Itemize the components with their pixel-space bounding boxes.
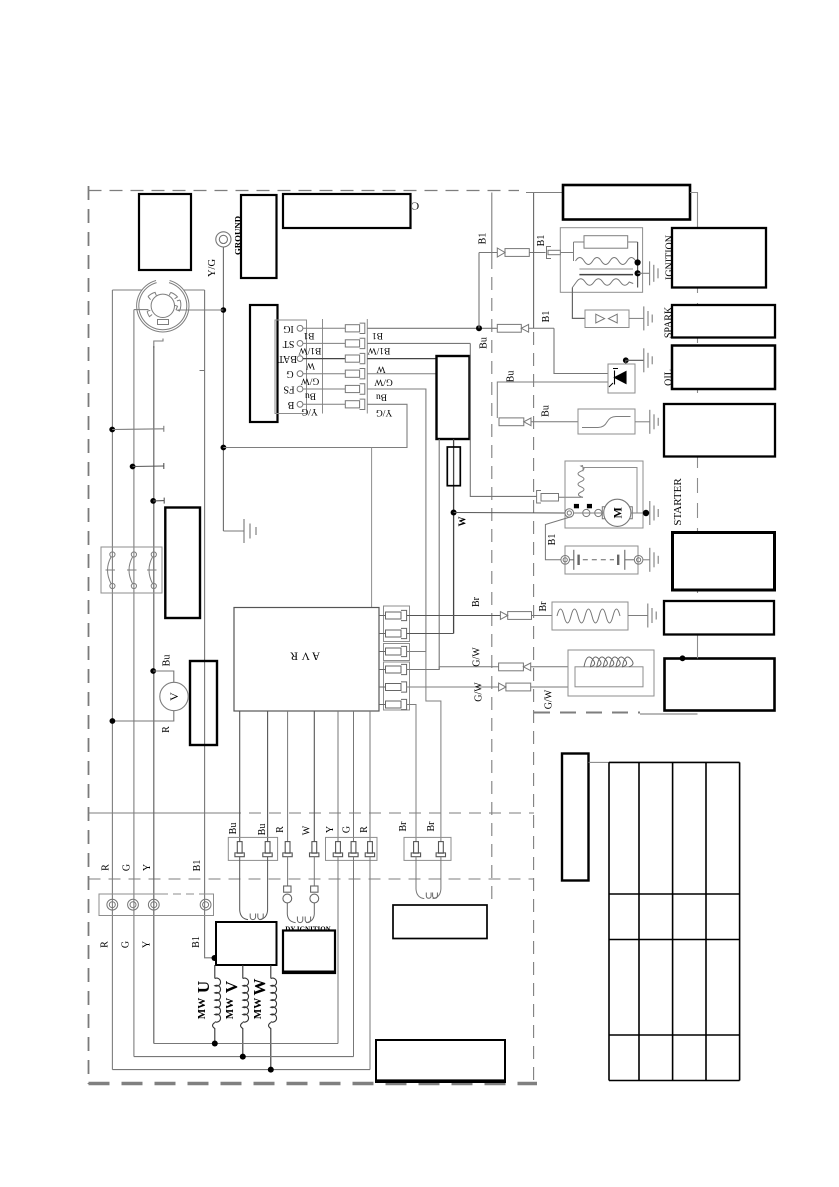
svg-text:R: R: [161, 726, 172, 733]
svg-text:Bu: Bu: [506, 371, 517, 383]
enclosure boundary: gray line y=714 segment: [640, 713, 698, 715]
lighting coil winding: [584, 657, 633, 667]
wire: tap stub from G wire: [133, 463, 164, 469]
battery cells: [570, 550, 635, 570]
voltmeter V: [160, 682, 188, 710]
terminal R: [107, 899, 118, 910]
wire row IG-B1: [303, 327, 345, 329]
box: ignition winding block: [283, 931, 335, 974]
svg-text:G/W: G/W: [374, 377, 393, 387]
wire: spark gap to ground: [629, 317, 644, 319]
pin terminal Y: [333, 842, 342, 857]
wire: bottom pin R vertical: [287, 711, 289, 842]
terminal Y: [148, 899, 159, 910]
svg-text:Br: Br: [398, 821, 409, 832]
connector housing: YGR pins: [326, 837, 378, 860]
svg-text:Y: Y: [142, 864, 153, 871]
ground symbol: ignition coil: [638, 261, 658, 285]
ground symbol: battery: [650, 548, 658, 572]
svg-text:C: C: [412, 200, 419, 212]
wire: pulser to ground: [635, 421, 650, 423]
wire: R pin down to bus: [369, 857, 371, 1070]
svg-text:Y/G: Y/G: [301, 406, 318, 416]
wire: panel Y vertical: [153, 346, 155, 1044]
wire: B0 box right lead down: [690, 193, 698, 229]
node: starter ground dot: [643, 510, 649, 516]
svg-text:V: V: [222, 980, 241, 993]
AVR pin 1: [379, 610, 407, 620]
box: circuit breaker housing: [101, 547, 162, 593]
pin terminal Bu2: [263, 842, 272, 857]
wire to ignition connector: [479, 252, 497, 254]
node: oil unit top dot: [623, 357, 629, 363]
ignition winding loops: [287, 903, 295, 923]
box: thick panel module (left): [165, 508, 200, 619]
svg-text:Y/G: Y/G: [376, 407, 393, 417]
box: engine control unit (black): [437, 356, 470, 439]
svg-text:G/W: G/W: [544, 689, 555, 709]
breaker pole 3: [147, 552, 157, 589]
spark gap box: [585, 310, 629, 328]
wire: receptacle left lead: [134, 309, 149, 311]
AVR side connector outline 3: [384, 662, 410, 710]
ignition coil core lines: [579, 268, 633, 270]
wire: Y pin down to bus: [337, 857, 339, 1044]
svg-text:V: V: [167, 692, 181, 701]
pin FS: [297, 386, 303, 392]
enclosure boundary: control panel left dashed edge: [88, 186, 90, 1084]
wire: starter to battery B1: [545, 517, 571, 560]
fuse F3: [345, 353, 365, 363]
svg-text:Y/G: Y/G: [207, 259, 218, 278]
connector: battery B1 female half: [497, 324, 554, 332]
ignition coil secondary winding: [572, 279, 633, 288]
ground symbol: resistor: [648, 604, 656, 628]
pin BAT: [297, 356, 303, 362]
svg-text:Y: Y: [142, 941, 153, 948]
wire: tap stub from R wire: [112, 426, 164, 432]
wire Y/G row to earth loop: [223, 404, 407, 447]
pin G: [297, 371, 303, 377]
wire: receptacle bottom lead: [154, 339, 163, 349]
starter terminal: [565, 509, 574, 518]
AVR pin 6: [379, 699, 407, 709]
svg-text:B1: B1: [547, 534, 558, 546]
pin terminal G: [349, 842, 358, 857]
node: voltmeter R tap: [110, 718, 116, 724]
terminal strip dashed divider: [160, 893, 200, 895]
svg-text:W: W: [376, 364, 385, 374]
svg-text:MW: MW: [252, 998, 264, 1019]
wire: receptacle right lead to Y/G node: [178, 309, 223, 311]
wire: oil unit dot to ground: [626, 360, 644, 364]
lamp component 1: [283, 886, 292, 903]
pulser coil box: [578, 409, 635, 434]
AVR pin 4: [379, 664, 407, 674]
motor brushes: [602, 507, 632, 519]
wire: tap stub from Y wire: [153, 498, 164, 504]
wire Bu row right then down: [367, 389, 426, 652]
wire W row into control unit: [367, 358, 436, 360]
node: ignition dot 1: [635, 259, 641, 265]
svg-text:Bu: Bu: [257, 824, 268, 836]
connector housing: Bu pins: [228, 837, 277, 860]
pin B: [297, 401, 303, 407]
enclosure boundary: generator top dashed edge y=879: [89, 878, 535, 880]
box: panel meter housing (top-left): [139, 194, 191, 270]
wire G/W from control unit bottom down to AVR pin4: [438, 439, 440, 670]
enclosure boundary: engine vertical dashed line x=697: [697, 228, 699, 643]
enclosure boundary: engine area dashed divider y=712: [534, 712, 640, 714]
pin terminal R2: [365, 842, 374, 857]
wire: B1 feed vertical x=534: [533, 193, 535, 329]
svg-text:Bu: Bu: [479, 337, 490, 349]
wire: Y/G from ground bolt down to junction: [222, 247, 224, 531]
wire: G pin down to bus: [353, 857, 355, 1057]
wire row B-Y/G: [303, 403, 345, 405]
svg-text:R: R: [100, 941, 111, 948]
wire row ST-B1/W: [303, 342, 345, 344]
enclosure boundary: generator bottom heavy dashed edge: [89, 1082, 538, 1085]
wire row BAT-W: [303, 358, 345, 360]
terminal strip box: [99, 894, 214, 916]
wire: B1 junction up to ignition feed: [478, 253, 480, 329]
ground symbol: spark: [644, 306, 652, 330]
wire: receptacle loop top: [112, 289, 142, 291]
wire: panel B1 vertical: [205, 290, 213, 958]
wire: panel R vertical: [111, 290, 113, 1070]
AVR side connector outline 1: [384, 606, 410, 642]
svg-text:FS: FS: [283, 384, 294, 395]
wire: AVR pin6 to Br pin: [407, 705, 416, 842]
starter motor M: [604, 499, 631, 526]
wire: AVR pin4 to G/W connector: [407, 667, 499, 670]
svg-text:B1/W: B1/W: [299, 345, 322, 355]
svg-text:R: R: [275, 826, 286, 833]
connector: starter solenoid receptacle: [537, 491, 583, 504]
svg-text:U: U: [194, 981, 213, 993]
wire: engine boundary stub to lighting label box: [697, 643, 699, 658]
svg-text:G/W: G/W: [472, 647, 483, 667]
svg-text:STARTER: STARTER: [672, 478, 684, 526]
enclosure boundary: vertical dashed line x=534: [533, 332, 535, 1083]
svg-text:G: G: [121, 941, 132, 948]
wire: contacts row: [574, 512, 603, 514]
lamp component 2: [310, 886, 319, 903]
wire: branch from Y/G loop down to AVR top: [371, 448, 373, 608]
svg-text:MW: MW: [224, 998, 236, 1019]
pulser contact curve: [582, 417, 631, 428]
wire: bottom bus Y: [154, 1043, 338, 1045]
spark gap electrodes: [596, 314, 617, 323]
svg-text:ST: ST: [283, 338, 295, 349]
wire: motor to ground: [631, 512, 650, 514]
wire: AVR pin3 to Bu net: [407, 651, 426, 653]
pin terminal Bu1: [235, 842, 244, 857]
wire row FS-Bu: [303, 388, 345, 390]
wire: oil unit lower lead: [497, 382, 608, 418]
wire: tick on B1 loop: [200, 370, 205, 372]
terminal G: [128, 899, 139, 910]
wire: solid segment x=492 top: [491, 193, 493, 257]
receptacle: twist-lock socket face: [137, 281, 189, 333]
wire: bottom pin Bu2 vertical: [267, 711, 269, 842]
starter motor assembly outline: [565, 461, 643, 528]
wire: HT lead to spark gap: [572, 288, 585, 319]
connector: G/W male half: [499, 683, 568, 691]
wire: AVR pin2 to W net: [407, 633, 454, 635]
svg-text:Bu: Bu: [376, 392, 387, 402]
svg-text:W: W: [302, 825, 313, 835]
wire: voltmeter bottom lead: [112, 711, 173, 721]
starter solenoid coil: [578, 465, 584, 497]
connector: G/W female half: [499, 663, 568, 671]
svg-text:Bu: Bu: [162, 655, 173, 667]
svg-text:Br: Br: [538, 601, 549, 612]
wire: battery to ground: [643, 559, 650, 561]
wire: bottom bus R: [112, 1069, 370, 1071]
breaker pole 2: [127, 552, 137, 589]
box: OIL label box: [672, 346, 775, 390]
svg-text:Y: Y: [325, 826, 336, 833]
svg-text:B1: B1: [478, 233, 489, 245]
wire: tall block to table: [589, 761, 610, 763]
svg-text:MW: MW: [196, 998, 208, 1019]
main winding W coil: [269, 965, 277, 1070]
oil sensor thyristor: [609, 369, 626, 388]
node: ignition dot 2: [635, 270, 641, 276]
lighting coil box: [568, 650, 654, 696]
main winding U coil: [213, 965, 221, 1044]
table: legend grid: [609, 762, 740, 1080]
svg-text:G: G: [342, 826, 353, 833]
pin terminal W: [310, 842, 319, 857]
svg-text:G: G: [286, 368, 293, 379]
box: control box with C label: [283, 194, 411, 228]
wire B1 row to junction: [367, 327, 497, 329]
connector: ignition B1 male half: [497, 248, 545, 257]
wire: receptacle loop top right: [184, 289, 205, 291]
node: U coil junction: [212, 1041, 218, 1047]
wire: bottom pin W vertical: [313, 711, 315, 842]
ignition coil primary winding: [576, 258, 636, 265]
node: B1 to stator dot: [212, 955, 218, 961]
wire: bottom bus G: [134, 1056, 354, 1058]
svg-text:B1: B1: [541, 311, 552, 323]
battery box: [565, 546, 638, 574]
svg-text:B1: B1: [191, 936, 202, 948]
box: AVR: [234, 608, 379, 712]
stator sub-winding loops: [250, 914, 263, 920]
AVR pin 2: [379, 628, 407, 638]
svg-text:R: R: [101, 864, 112, 871]
wire: bottom pin G vertical: [353, 711, 355, 842]
svg-text:Bu: Bu: [228, 823, 239, 835]
pin terminal R: [283, 842, 292, 857]
svg-text:BAT: BAT: [278, 353, 297, 364]
fuse F1: [345, 323, 365, 333]
box: charge winding block: [393, 905, 487, 939]
fuse F2: [345, 338, 365, 348]
wire: AVR pin1 to Br connector: [407, 615, 501, 617]
node: V coil junction: [240, 1054, 246, 1060]
AVR pin 5: [379, 682, 407, 692]
ignition coil resistor: [584, 236, 628, 249]
svg-text:B1: B1: [372, 330, 383, 340]
wire B1/W down beside control unit: [470, 343, 537, 496]
svg-text:G: G: [122, 864, 133, 871]
resistor box: [552, 602, 628, 630]
box: IGNITION SWITCH (white label box): [672, 228, 766, 288]
wire B1/W row right: [367, 342, 470, 344]
wire: R pin to ignition lamp 1: [287, 857, 289, 886]
wire: panel G vertical: [133, 310, 135, 1057]
node: W coil junction: [268, 1067, 274, 1073]
pin ST: [297, 341, 303, 347]
node: Y/G loop junction: [221, 445, 227, 451]
wire: ignition coil internal leads: [561, 242, 638, 261]
svg-text:GROUND: GROUND: [233, 216, 243, 255]
charge winding loops: [426, 893, 437, 899]
fuse F4: [345, 369, 365, 379]
wire: B1 to oil unit upper: [554, 328, 608, 373]
ignition coil assembly outline: [560, 228, 642, 293]
svg-text:AVR: AVR: [287, 650, 320, 662]
box: pulser label box: [664, 404, 775, 457]
svg-text:R: R: [359, 826, 370, 833]
connector: ignition B1 female bracket: [547, 247, 561, 259]
svg-text:G/W: G/W: [474, 682, 485, 702]
box: thick panel module (lower): [190, 661, 217, 745]
terminal B1: [200, 899, 211, 910]
wire: bottom pin R2 vertical: [369, 711, 371, 842]
wire: bottom pin Bu1 vertical: [239, 711, 241, 842]
svg-text:IG: IG: [283, 323, 294, 334]
breaker pole 1: [106, 552, 116, 589]
node: lighting box top dot: [680, 655, 686, 661]
node: tap junction on Y wire: [150, 498, 156, 504]
connector housing: Br pins: [404, 837, 451, 860]
node: Y/G junction at receptacle: [221, 307, 227, 313]
lighting coil inner frame: [575, 667, 643, 687]
svg-text:Bu: Bu: [305, 391, 316, 401]
battery right terminal: [634, 556, 643, 565]
wire: AVR pin5 to G/W connector 2: [407, 686, 499, 688]
box: key switch block: [250, 305, 278, 422]
wire row G-G/W: [303, 373, 345, 375]
connector: pulser Bu female half: [499, 418, 578, 426]
pin terminal Br2: [436, 842, 445, 857]
svg-text:B1: B1: [536, 235, 547, 247]
svg-text:B1: B1: [192, 860, 203, 872]
ground symbol: starter: [650, 501, 658, 525]
fuse F5: [345, 384, 365, 394]
box: engine tall label block: [562, 754, 589, 881]
enclosure boundary: control panel top dashed edge: [89, 190, 520, 192]
fuse column rails: [323, 319, 368, 414]
wire W junction to starter: [454, 512, 565, 515]
wire G/W row into control unit: [367, 373, 436, 375]
starter contacts: [583, 509, 590, 516]
box: resistor label box: [664, 601, 774, 635]
box: battery label box: [673, 533, 775, 591]
wire: solenoid top loop: [583, 468, 637, 514]
box: stator main winding block: [216, 922, 277, 965]
connector: Br male half: [500, 612, 552, 620]
resistor element: [557, 609, 620, 623]
wire W from control unit through fuse: [453, 439, 455, 634]
fuse: main fuse (black rect): [447, 447, 460, 486]
node: voltmeter Bu tap: [150, 668, 156, 674]
svg-text:B1: B1: [303, 330, 314, 340]
svg-text:Br: Br: [471, 596, 482, 607]
wire: Br pins down to charge winding: [416, 857, 424, 899]
box: lighting label box: [665, 659, 775, 711]
svg-text:B: B: [287, 399, 294, 410]
svg-text:B1/W: B1/W: [368, 345, 391, 355]
pin IG: [297, 325, 303, 331]
svg-text:W: W: [306, 360, 315, 370]
AVR pin 3: [379, 646, 407, 656]
wire: resistor to ground: [628, 615, 648, 617]
ground symbol: panel earth: [223, 519, 256, 543]
wire: ignition coil right side: [637, 242, 639, 288]
wire: voltmeter top lead: [153, 671, 174, 682]
pin terminal Br1: [411, 842, 420, 857]
wire: W pin to ignition lamp 2: [313, 857, 315, 886]
node: W junction: [451, 510, 457, 516]
svg-text:G/W: G/W: [301, 375, 320, 385]
enclosure boundary: panel/generator dashed divider y=813: [89, 812, 230, 814]
wire: Bu pins down to stator winding: [240, 857, 248, 920]
node: B1 junction: [476, 325, 482, 331]
wire: top B0 box left lead: [526, 192, 563, 194]
svg-text:W: W: [250, 979, 269, 996]
svg-text:W: W: [458, 517, 469, 527]
wire: Bu net down to Br pin jog: [426, 652, 441, 842]
box: main switch box (top right): [563, 185, 690, 220]
starter contact tips: [574, 504, 579, 508]
wire: bottom pin Y vertical: [337, 711, 339, 842]
svg-text:Br: Br: [426, 821, 437, 832]
ground symbol: oil: [644, 348, 652, 372]
oil sensor unit box: [608, 364, 635, 393]
node: tap junction on G wire: [130, 464, 136, 470]
main winding V coil: [241, 965, 249, 1057]
battery left terminal: [561, 556, 570, 565]
ground symbol: pulser: [650, 410, 658, 434]
node: tap junction on R wire: [109, 427, 115, 433]
svg-text:Bu: Bu: [541, 405, 552, 417]
svg-text:M: M: [610, 507, 624, 518]
fuse F6: [345, 399, 365, 409]
box: SPARK label box: [672, 305, 775, 338]
box: GROUND label box: [241, 195, 277, 278]
AVR side connector outline 2: [384, 644, 410, 661]
ground bolt (double circle): [216, 232, 231, 247]
enclosure boundary: vertical dashed line x=492: [491, 256, 493, 900]
box: key switch connector: [275, 320, 307, 414]
box: bottom label block: [376, 1040, 505, 1082]
